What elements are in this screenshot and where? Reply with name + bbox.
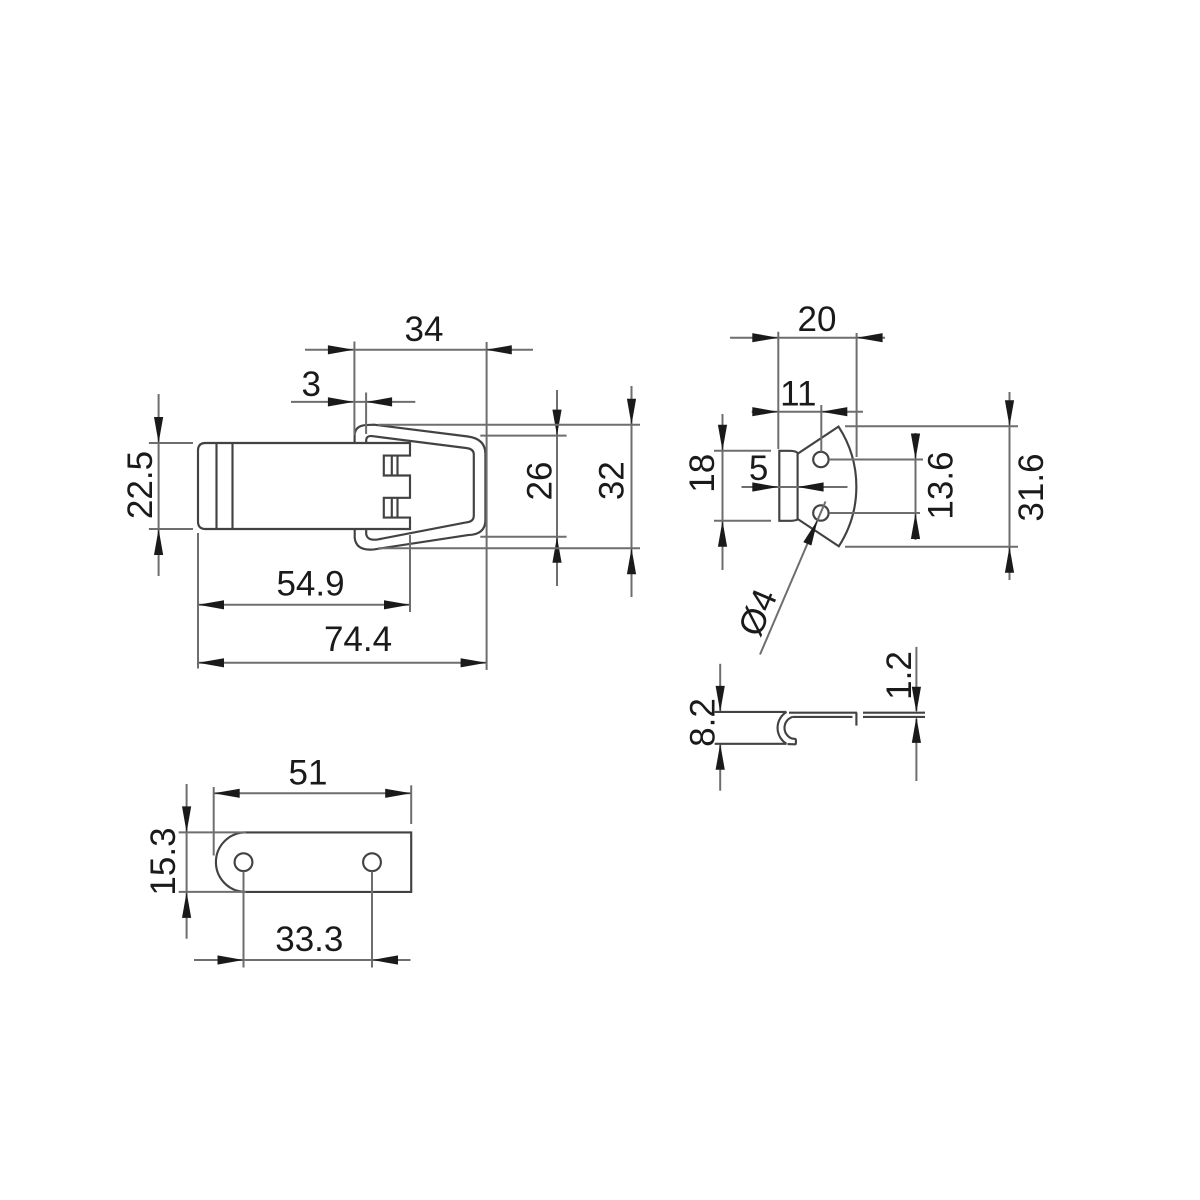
dimension 31.6 xyxy=(845,425,1018,427)
dimension 26 xyxy=(480,435,566,437)
dimension 54.9 xyxy=(197,533,199,669)
svg-text:Ø4: Ø4 xyxy=(731,583,785,641)
svg-text:8.2: 8.2 xyxy=(684,698,723,747)
wire section in upper slot xyxy=(391,456,393,476)
dimension 20 xyxy=(730,337,885,339)
dimension 74.4 xyxy=(198,662,487,664)
wire section in lower slot xyxy=(391,498,393,518)
bail loop outer contour xyxy=(355,425,486,550)
svg-text:20: 20 xyxy=(798,300,837,339)
leader line for hole diameter xyxy=(760,502,826,655)
sheet top line (left segment) xyxy=(789,712,857,714)
plate bend line 2 xyxy=(231,443,233,529)
sheet top line (right segment) xyxy=(863,712,925,714)
dimension 1.2 xyxy=(915,647,917,711)
svg-text:34: 34 xyxy=(405,310,444,349)
svg-text:33.3: 33.3 xyxy=(275,920,343,959)
bail loop inner contour xyxy=(366,436,474,540)
dimension 18 xyxy=(714,450,771,452)
dimension 5 xyxy=(742,486,848,488)
svg-text:11: 11 xyxy=(780,375,816,414)
svg-text:51: 51 xyxy=(289,754,328,793)
plate bend line 1 xyxy=(215,443,217,529)
svg-text:3: 3 xyxy=(302,365,321,404)
sheet bottom line (right segment) xyxy=(863,716,925,718)
hook bend outer arc xyxy=(778,712,787,744)
svg-text:31.6: 31.6 xyxy=(1012,453,1051,521)
dimension 22.5 xyxy=(149,442,193,444)
dimension 3 xyxy=(291,401,415,403)
svg-text:54.9: 54.9 xyxy=(276,565,344,604)
hook plate outline xyxy=(779,427,856,547)
svg-text:1.2: 1.2 xyxy=(880,651,919,700)
dimension 8.2 xyxy=(719,664,721,711)
hook bend inner contour with sheet end xyxy=(784,717,795,744)
sheet bottom line (left segment) xyxy=(793,716,853,718)
svg-text:15.3: 15.3 xyxy=(144,827,183,895)
dimension 15.3 xyxy=(179,831,246,833)
hook lip top edge xyxy=(715,711,787,713)
dimension 33.3 xyxy=(243,871,245,967)
base plate outline xyxy=(216,832,411,892)
hook lip bottom edge xyxy=(715,743,787,745)
svg-text:18: 18 xyxy=(683,454,722,493)
fold line of mounting tab xyxy=(797,454,799,519)
dimension 32 xyxy=(378,424,640,426)
lower hole xyxy=(813,505,828,520)
svg-text:26: 26 xyxy=(521,462,560,501)
svg-text:22.5: 22.5 xyxy=(121,451,160,519)
right mounting hole xyxy=(363,853,381,871)
break mark lower xyxy=(855,713,857,726)
svg-text:13.6: 13.6 xyxy=(922,451,961,519)
svg-text:74.4: 74.4 xyxy=(324,620,392,659)
dimension 34 xyxy=(305,349,533,351)
dimension 51 xyxy=(213,787,215,856)
svg-text:5: 5 xyxy=(749,449,768,488)
left mounting hole xyxy=(235,853,253,871)
svg-text:32: 32 xyxy=(593,461,632,500)
upper hole xyxy=(813,452,828,467)
latch spring plate with comb slots xyxy=(198,443,410,529)
dimension 13.6 xyxy=(829,459,923,461)
dimension 11 xyxy=(752,411,863,413)
